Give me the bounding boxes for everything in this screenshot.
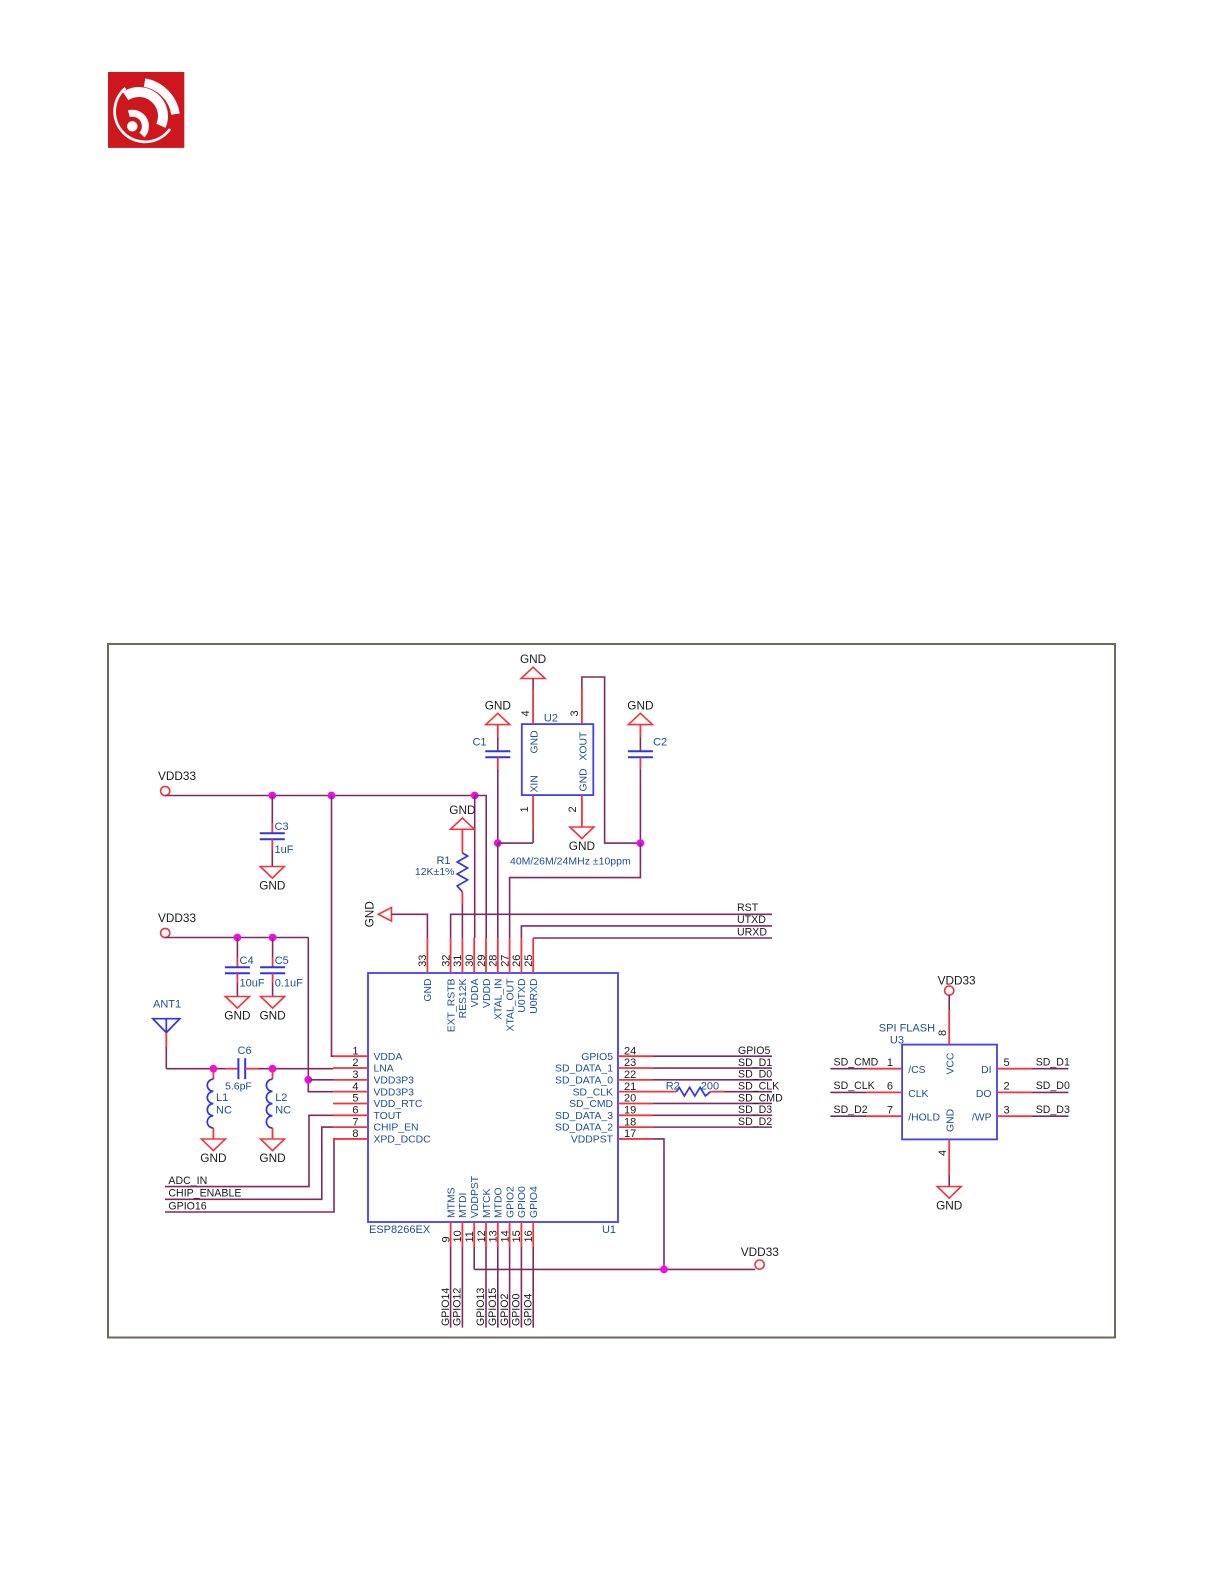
pin 17 VDDPST (right) [571, 1128, 653, 1145]
svg-text:SD_DATA_2: SD_DATA_2 [555, 1123, 613, 1134]
svg-text:GPIO4: GPIO4 [529, 1186, 540, 1218]
pin 7 (U3 left) net SD_D2 [830, 1104, 902, 1116]
svg-text:MTCK: MTCK [482, 1188, 493, 1218]
svg-text:9: 9 [440, 1236, 452, 1242]
wire crystal pin3 XOUT route [582, 677, 641, 843]
svg-text:SPI FLASH: SPI FLASH [879, 1023, 935, 1035]
svg-text:C1: C1 [472, 737, 486, 749]
pin 30 VDDA (top) [464, 938, 481, 1007]
net SD_CLK [724, 1080, 779, 1092]
wire pin17 VDDPST to VDD33 [653, 1139, 664, 1269]
svg-text:2: 2 [1004, 1081, 1010, 1093]
net ADC_IN [165, 1115, 333, 1187]
svg-text:CHIP_EN: CHIP_EN [374, 1123, 419, 1134]
IC U1 ESP8266EX [368, 973, 618, 1236]
svg-text:2: 2 [567, 806, 579, 812]
ground below C3 [260, 867, 284, 879]
svg-text:SD_D1: SD_D1 [738, 1057, 772, 1069]
svg-text:17: 17 [624, 1128, 636, 1140]
svg-text:MTMS: MTMS [446, 1187, 457, 1218]
pin 8 XPD_DCDC (left) [333, 1128, 431, 1145]
svg-text:SD_D0: SD_D0 [738, 1069, 772, 1081]
svg-text:16: 16 [523, 1230, 535, 1242]
pin 6 (U3 left) net SD_CLK [830, 1080, 902, 1092]
wire C6 to pin2 LNA [259, 1068, 334, 1070]
inductor L1 [207, 1069, 232, 1139]
wire junction to crystal XIN [498, 842, 533, 844]
svg-text:C4: C4 [240, 955, 254, 967]
svg-text:8: 8 [937, 1030, 949, 1036]
svg-text:GND: GND [569, 839, 595, 853]
svg-text:3: 3 [569, 710, 581, 716]
svg-text:5.6pF: 5.6pF [225, 1081, 252, 1093]
svg-text:NC: NC [216, 1104, 232, 1116]
svg-text:4: 4 [520, 710, 532, 716]
pin 29 VDDD (top) [476, 938, 493, 1008]
svg-text:VDDPST: VDDPST [470, 1175, 481, 1218]
node junction VDDA branch on rail [328, 792, 336, 800]
svg-text:SD_CLK: SD_CLK [834, 1080, 875, 1092]
svg-text:23: 23 [624, 1057, 636, 1069]
wire gnd to pin33 [392, 914, 428, 938]
node junction L2 [269, 1065, 277, 1073]
svg-text:VDDA: VDDA [374, 1052, 403, 1063]
svg-text:SD_CMD: SD_CMD [834, 1057, 879, 1069]
svg-text:200: 200 [701, 1080, 719, 1092]
svg-text:L1: L1 [216, 1092, 228, 1104]
pin 22 SD_DATA_0 (right) [555, 1069, 653, 1086]
pin 33 GND (top) [417, 938, 434, 1002]
pin 15 GPIO0 (bottom) [511, 1186, 528, 1247]
svg-text:U0RXD: U0RXD [529, 979, 540, 1014]
net GPIO4 [522, 1247, 534, 1328]
net SD_D2 [653, 1116, 773, 1128]
net GPIO12 [452, 1247, 464, 1328]
svg-text:GND: GND [259, 1009, 285, 1023]
pin 5 VDD_RTC (left) [333, 1093, 423, 1110]
node junction rail end [471, 792, 479, 800]
schematic frame [108, 644, 1115, 1338]
svg-text:32: 32 [440, 955, 452, 967]
svg-text:GPIO0: GPIO0 [517, 1186, 528, 1218]
wire VDD33 second rail [165, 937, 308, 939]
svg-text:XIN: XIN [529, 775, 540, 792]
svg-text:TOUT: TOUT [374, 1111, 403, 1122]
pin 19 SD_DATA_3 (right) [555, 1105, 653, 1122]
wire junction to pin27 XTAL_OUT [510, 843, 641, 938]
pin 23 SD_DATA_1 (right) [555, 1057, 653, 1074]
pin 16 GPIO4 (bottom) [523, 1186, 540, 1247]
svg-text:12: 12 [476, 1230, 488, 1242]
svg-text:VDD33: VDD33 [741, 1245, 779, 1259]
svg-text:XTAL_IN: XTAL_IN [494, 979, 505, 1020]
svg-text:33: 33 [417, 955, 429, 967]
pin 2 (U3 right) net SD_D0 [997, 1080, 1070, 1092]
svg-text:VDD_RTC: VDD_RTC [374, 1099, 423, 1110]
pin 27 XTAL_OUT (top) [499, 938, 516, 1031]
node junction C1/XIN/XTAL_IN [494, 839, 502, 847]
svg-text:VDD3P3: VDD3P3 [374, 1075, 415, 1086]
svg-text:R2: R2 [666, 1080, 680, 1092]
svg-text:2: 2 [352, 1057, 358, 1069]
wire crystal pin4 to gnd [532, 679, 534, 725]
wire VDD33 bottom rail [474, 1268, 755, 1270]
svg-text:5: 5 [352, 1093, 358, 1105]
ground flag above R1 [450, 818, 474, 829]
wire crystal pin2 to gnd [581, 795, 583, 827]
svg-text:10uF: 10uF [240, 978, 265, 990]
svg-text:/WP: /WP [972, 1113, 992, 1124]
net GPIO16 [165, 1139, 334, 1212]
svg-text:SD_D3: SD_D3 [1036, 1104, 1070, 1116]
pin 12 MTCK (bottom) [476, 1188, 493, 1247]
svg-text:27: 27 [499, 955, 511, 967]
pin 21 SD_CLK (right) [573, 1081, 653, 1098]
svg-text:GPIO2: GPIO2 [505, 1186, 516, 1218]
net GPIO13 [475, 1247, 487, 1328]
svg-text:RES12K: RES12K [458, 978, 469, 1018]
svg-text:26: 26 [511, 955, 523, 967]
net GPIO14 [440, 1247, 452, 1328]
net RST [451, 902, 772, 938]
wire pin3 branch [308, 1079, 333, 1081]
svg-text:1: 1 [887, 1057, 893, 1069]
pin 24 GPIO5 (right) [581, 1045, 652, 1062]
svg-text:GND: GND [200, 1151, 226, 1165]
svg-text:EXT_RSTB: EXT_RSTB [446, 978, 457, 1032]
pin 5 (U3 right) net SD_D1 [997, 1057, 1070, 1069]
resistor R1 12K [415, 829, 468, 938]
svg-text:U0TXD: U0TXD [517, 979, 528, 1013]
ground below crystal pin2 [570, 827, 594, 839]
node junction L1 [210, 1065, 218, 1073]
svg-text:GPIO15: GPIO15 [487, 1288, 499, 1326]
node junction pin3 branch [304, 1076, 312, 1084]
svg-text:GPIO5: GPIO5 [581, 1052, 613, 1063]
svg-text:GND: GND [362, 901, 376, 927]
ground above C1 [486, 713, 510, 724]
ground below C4 [225, 997, 249, 1009]
svg-text:SD_D2: SD_D2 [738, 1116, 772, 1128]
svg-text:29: 29 [476, 955, 488, 967]
net UTXD [521, 914, 772, 938]
svg-text:GND: GND [627, 698, 653, 712]
svg-text:40M/26M/24MHz ±10ppm: 40M/26M/24MHz ±10ppm [510, 855, 631, 867]
svg-text:ESP8266EX: ESP8266EX [369, 1224, 431, 1236]
svg-text:13: 13 [488, 1230, 500, 1242]
svg-text:3: 3 [1004, 1104, 1010, 1116]
svg-text:U3: U3 [890, 1035, 904, 1047]
svg-text:SD_CLK: SD_CLK [738, 1080, 779, 1092]
node junction C4 [234, 934, 242, 942]
ground above crystal pin4 [521, 667, 545, 678]
svg-text:UTXD: UTXD [737, 914, 766, 926]
wire pin11 VDDPST to VDD33 rail [473, 1247, 475, 1269]
svg-text:SD_DATA_0: SD_DATA_0 [555, 1075, 613, 1086]
svg-text:20: 20 [624, 1093, 636, 1105]
svg-text:14: 14 [499, 1230, 511, 1242]
svg-text:/CS: /CS [908, 1065, 925, 1076]
ground below L1 [201, 1139, 225, 1151]
net SD_D0 [653, 1069, 773, 1081]
pin 6 TOUT (left) [333, 1105, 402, 1122]
svg-text:8: 8 [352, 1128, 358, 1140]
svg-text:GPIO14: GPIO14 [440, 1288, 452, 1326]
svg-text:SD_CMD: SD_CMD [569, 1099, 613, 1110]
svg-text:VDD3P3: VDD3P3 [374, 1087, 415, 1098]
ground below C5 [261, 997, 285, 1009]
svg-text:SD_D2: SD_D2 [834, 1104, 868, 1116]
ground below U3 [937, 1187, 961, 1199]
svg-text:GND: GND [529, 730, 540, 753]
svg-text:XPD_DCDC: XPD_DCDC [374, 1135, 432, 1146]
svg-text:GND: GND [224, 1009, 250, 1023]
wire antenna stem [166, 1033, 225, 1069]
svg-text:U2: U2 [544, 713, 558, 725]
svg-text:6: 6 [887, 1081, 893, 1093]
wire VDD33 second rail corner to pin4 [308, 938, 333, 1092]
net GPIO2 [499, 1247, 511, 1328]
svg-text:3: 3 [352, 1069, 358, 1081]
svg-text:C2: C2 [653, 737, 667, 749]
svg-text:4: 4 [352, 1081, 358, 1093]
svg-text:LNA: LNA [374, 1064, 394, 1075]
capacitor C1 [472, 725, 510, 844]
svg-text:31: 31 [452, 955, 464, 967]
svg-text:0.1uF: 0.1uF [275, 978, 303, 990]
svg-text:24: 24 [624, 1045, 636, 1057]
svg-text:VDDA: VDDA [470, 978, 481, 1007]
net GPIO0 [511, 1247, 523, 1328]
svg-text:RST: RST [737, 902, 759, 914]
node junction C5 [269, 934, 277, 942]
svg-text:GPIO0: GPIO0 [511, 1294, 523, 1326]
wire crystal pin1 XIN down [532, 795, 534, 843]
pin 13 MTDO (bottom) [488, 1187, 505, 1247]
inductor L2 [266, 1069, 291, 1139]
svg-text:MTDI: MTDI [458, 1193, 469, 1218]
svg-text:11: 11 [464, 1231, 476, 1242]
pin 3 VDD3P3 (left) [333, 1069, 414, 1086]
net GPIO5 [653, 1045, 772, 1057]
IC U3 SPI FLASH [879, 1023, 997, 1140]
pin 3 (U3 right) net SD_D3 [997, 1104, 1070, 1116]
net SD_D3 [653, 1104, 773, 1116]
svg-text:SD_CMD: SD_CMD [738, 1092, 783, 1104]
svg-text:URXD: URXD [737, 927, 767, 939]
capacitor C4 [225, 938, 265, 997]
svg-text:19: 19 [624, 1105, 636, 1117]
svg-text:C5: C5 [275, 955, 289, 967]
svg-text:XTAL_OUT: XTAL_OUT [505, 978, 516, 1032]
svg-text:GND: GND [259, 1151, 285, 1165]
svg-text:GND: GND [520, 652, 546, 666]
svg-text:GPIO12: GPIO12 [452, 1288, 464, 1326]
pin 9 MTMS (bottom) [440, 1187, 457, 1247]
svg-text:XOUT: XOUT [578, 731, 589, 761]
pin 18 SD_DATA_2 (right) [555, 1116, 653, 1133]
node junction C3 on rail [268, 792, 276, 800]
ground below L2 [261, 1139, 285, 1151]
svg-text:GND: GND [259, 879, 285, 893]
svg-text:22: 22 [624, 1069, 636, 1081]
svg-text:CHIP_ENABLE: CHIP_ENABLE [168, 1188, 241, 1200]
wire VDD33 to pin29 [475, 796, 487, 939]
pin 26 U0TXD (top) [511, 938, 528, 1013]
wire VDD33 top rail [165, 794, 475, 796]
svg-text:SD_D1: SD_D1 [1036, 1057, 1070, 1069]
svg-text:VDD33: VDD33 [938, 973, 976, 987]
svg-text:15: 15 [511, 1230, 523, 1242]
net URXD [533, 927, 772, 939]
svg-text:GND: GND [449, 803, 475, 817]
node junction C2/XOUT/XTAL_OUT [637, 839, 645, 847]
svg-text:VDDPST: VDDPST [571, 1135, 614, 1146]
net SD_D1 [653, 1057, 773, 1069]
svg-text:7: 7 [887, 1104, 893, 1116]
antenna ANT1 [153, 999, 181, 1033]
pin 25 U0RXD (top) [523, 938, 540, 1014]
pin 1 (U3 left) net SD_CMD [830, 1057, 902, 1069]
pin 14 GPIO2 (bottom) [499, 1186, 516, 1247]
svg-text:NC: NC [275, 1104, 291, 1116]
svg-text:SD_D3: SD_D3 [738, 1104, 772, 1116]
svg-text:28: 28 [488, 955, 500, 967]
svg-text:GPIO5: GPIO5 [738, 1045, 770, 1057]
svg-text:SD_DATA_1: SD_DATA_1 [555, 1064, 613, 1075]
capacitor C3 [260, 796, 294, 867]
svg-text:C6: C6 [238, 1045, 252, 1057]
svg-text:VCC: VCC [946, 1052, 957, 1074]
pin 32 EXT_RSTB (top) [440, 938, 457, 1032]
svg-text:ANT1: ANT1 [153, 999, 181, 1011]
svg-text:CLK: CLK [908, 1089, 928, 1100]
svg-text:VDD33: VDD33 [158, 911, 196, 925]
wire VDD33 to pin30 [474, 796, 476, 939]
svg-text:GPIO4: GPIO4 [522, 1294, 534, 1326]
net GPIO15 [487, 1247, 499, 1328]
svg-text:MTDO: MTDO [494, 1187, 505, 1218]
svg-text:ADC_IN: ADC_IN [168, 1175, 207, 1187]
resistor R2 200 [653, 1080, 724, 1096]
Espressif logo [108, 72, 184, 148]
capacitor C6 [225, 1045, 259, 1093]
svg-text:10: 10 [452, 1230, 464, 1242]
svg-text:VDDD: VDDD [482, 979, 493, 1008]
svg-text:1: 1 [352, 1045, 358, 1057]
capacitor C5 [260, 938, 303, 997]
svg-text:SD_CLK: SD_CLK [573, 1087, 613, 1098]
pin 7 CHIP_EN (left) [333, 1116, 419, 1133]
svg-text:GND: GND [936, 1199, 962, 1213]
svg-text:18: 18 [624, 1116, 636, 1128]
svg-text:21: 21 [624, 1081, 636, 1093]
power flag VDD33 (bottom) [741, 1245, 779, 1269]
pin 28 XTAL_IN (top) [488, 938, 505, 1020]
svg-text:L2: L2 [275, 1092, 287, 1104]
svg-text:SD_D0: SD_D0 [1036, 1080, 1070, 1092]
svg-text:C3: C3 [275, 821, 289, 833]
svg-text:U1: U1 [602, 1224, 616, 1236]
svg-text:GPIO16: GPIO16 [168, 1200, 206, 1212]
svg-text:5: 5 [1004, 1057, 1010, 1069]
svg-text:7: 7 [352, 1116, 358, 1128]
pin 8 VCC (U3 top) [937, 995, 949, 1045]
svg-text:12K±1%: 12K±1% [415, 866, 455, 878]
svg-text:1uF: 1uF [275, 844, 294, 856]
power flag VDD33 (second, left) [158, 911, 196, 938]
ground flag left of pin33 [378, 908, 391, 922]
wire VDD33 to pin1 VDDA [332, 796, 334, 1057]
svg-text:DI: DI [981, 1065, 991, 1076]
svg-text:4: 4 [937, 1150, 949, 1156]
svg-text:VDD33: VDD33 [158, 769, 196, 783]
svg-text:GND: GND [578, 768, 589, 791]
svg-text:6: 6 [352, 1105, 358, 1117]
power flag VDD33 (U3) [938, 973, 976, 995]
power flag VDD33 (top left) [158, 769, 196, 796]
svg-text:GND: GND [423, 979, 434, 1002]
pin 11 VDDPST (bottom) [464, 1175, 481, 1247]
pin 1 VDDA (left) [333, 1045, 402, 1062]
pin 4 VDD3P3 (left) [333, 1081, 414, 1098]
svg-text:1: 1 [519, 806, 531, 812]
svg-text:GND: GND [485, 698, 511, 712]
svg-text:GPIO2: GPIO2 [499, 1294, 511, 1326]
net CHIP_ENABLE [165, 1127, 333, 1199]
svg-text:GND: GND [946, 1109, 957, 1132]
svg-text:DO: DO [976, 1089, 992, 1100]
pin 2 LNA (left) [333, 1057, 394, 1074]
node junction VDDPST/VDD33 [660, 1266, 668, 1274]
pin 20 SD_CMD (right) [569, 1093, 652, 1110]
capacitor C2 [628, 725, 667, 844]
pin 4 GND (U3 bottom) [937, 1139, 949, 1186]
pin 31 RES12K (top) [452, 938, 469, 1018]
net SD_CMD [653, 1092, 783, 1104]
ground above C2 [628, 713, 652, 724]
svg-text:25: 25 [523, 955, 535, 967]
pin 10 MTDI (bottom) [452, 1193, 469, 1247]
svg-text:SD_DATA_3: SD_DATA_3 [555, 1111, 613, 1122]
wire junction to pin28 XTAL_IN [497, 843, 499, 938]
svg-text:/HOLD: /HOLD [908, 1113, 940, 1124]
svg-text:GPIO13: GPIO13 [475, 1288, 487, 1326]
crystal U2 [519, 710, 593, 812]
svg-text:30: 30 [464, 955, 476, 967]
